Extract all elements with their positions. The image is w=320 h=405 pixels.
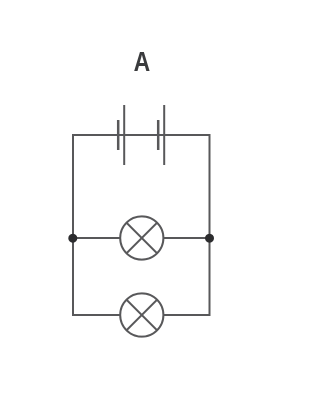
wire left: [72, 134, 74, 316]
node left junction: [68, 234, 77, 243]
node right junction: [205, 234, 214, 243]
lamp L1 (middle branch): [120, 216, 163, 259]
battery cell 1: [118, 105, 124, 165]
svg-text:A: A: [134, 47, 151, 78]
wire bottom: [72, 314, 211, 316]
wire top: [72, 134, 211, 136]
wire middle branch: [73, 237, 210, 239]
wire right: [209, 134, 211, 316]
lamp L2 (bottom): [120, 293, 163, 336]
battery cell 2: [158, 105, 164, 165]
